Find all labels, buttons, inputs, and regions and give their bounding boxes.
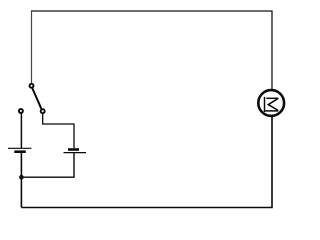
motor M1 letter M (rotated 90deg clockwise) bar stroke [264, 97, 266, 112]
switch SW1 lever (pole to right throw) [32, 88, 41, 108]
switch SW1 pole contact circle [30, 84, 34, 88]
wire battery B1 bottom to junction and bottom-left corner [20, 153, 22, 207]
switch SW1 left throw contact circle [19, 109, 23, 113]
battery B1 positive plate (long) [8, 147, 32, 149]
motor M1 letter M top stroke [266, 97, 278, 99]
wire top horizontal and right side down to motor [32, 11, 273, 90]
motor M1 body circle [258, 90, 284, 116]
battery B2 negative plate (short thick) [68, 148, 79, 151]
wire from switch pole up to top-left corner [31, 10, 33, 83]
wire junction row horizontal [21, 176, 74, 178]
wire left throw down to battery B1 [20, 114, 22, 148]
battery B1 negative plate (short thick) [14, 150, 25, 153]
motor M1 letter M chevron stroke [268, 98, 278, 110]
battery B2 positive plate (long) [64, 152, 87, 154]
motor M1 letter M bottom stroke [265, 110, 278, 112]
junction node dot [19, 175, 24, 180]
wire right throw down and right to battery B2 [43, 114, 74, 148]
wire bottom from left corner to right corner up to motor [21, 117, 272, 208]
wire battery B2 bottom down to junction row [73, 153, 75, 177]
switch SW1 right throw contact circle [41, 109, 45, 113]
